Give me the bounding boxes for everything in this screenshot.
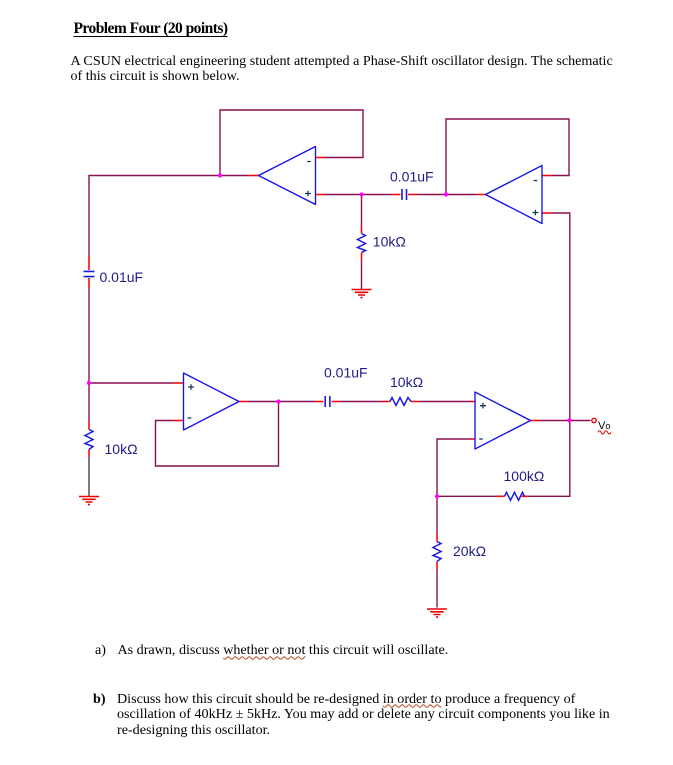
svg-text:0.01uF: 0.01uF <box>100 269 144 285</box>
svg-text:100kΩ: 100kΩ <box>504 468 545 484</box>
svg-text:o: o <box>606 421 611 431</box>
svg-text:10kΩ: 10kΩ <box>390 374 423 390</box>
svg-text:0.01uF: 0.01uF <box>324 364 368 380</box>
svg-text:10kΩ: 10kΩ <box>105 441 138 457</box>
svg-text:20kΩ: 20kΩ <box>453 543 486 559</box>
svg-text:10kΩ: 10kΩ <box>373 234 406 250</box>
svg-text:0.01uF: 0.01uF <box>390 168 434 184</box>
